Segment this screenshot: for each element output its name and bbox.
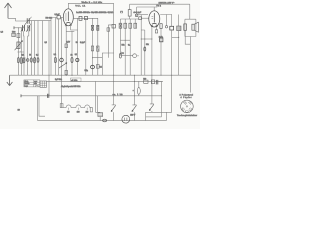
resistor oval x=72 <box>71 57 73 62</box>
svg-text:0,5: 0,5 <box>45 42 47 44</box>
capacitor anode <box>79 16 82 20</box>
wire x=61.5 regen <box>61 18 63 76</box>
svg-text:4 Papier: 4 Papier <box>181 96 192 99</box>
speaker down wire <box>189 37 191 93</box>
main long vertical x=113.7 <box>113 3 115 105</box>
capacitor box on line <box>151 80 154 84</box>
variable capacitor Ca <box>23 25 25 31</box>
wire x=49 long <box>48 21 50 96</box>
wire x=108.3 <box>108 25 112 58</box>
switch box above bus <box>98 113 103 117</box>
svg-text:100: 100 <box>143 78 146 80</box>
svg-text:±5 kHz: ±5 kHz <box>71 80 77 82</box>
antenna <box>5 3 12 18</box>
svg-text:0,1: 0,1 <box>100 66 102 68</box>
capacitor grid coupling <box>57 16 60 19</box>
label box on line <box>71 78 82 81</box>
wire x=34.6 <box>34 21 36 76</box>
svg-text:0,1µF: 0,1µF <box>80 42 86 44</box>
wire x=130.2 <box>129 19 131 75</box>
tube V1 top cap wire <box>68 3 113 8</box>
speaker feed <box>189 4 191 19</box>
bottom bus <box>38 120 167 122</box>
svg-text:0,1: 0,1 <box>22 54 25 56</box>
svg-text:HG 604: HG 604 <box>46 18 53 20</box>
small box on x=66.2 <box>65 70 67 74</box>
tube V1 pin 2 down <box>71 26 78 30</box>
wire x=85.8 <box>85 18 87 75</box>
horizontal y=57.7 <box>93 53 114 58</box>
lamp / plug circle <box>122 115 130 123</box>
svg-text:0,5: 0,5 <box>36 54 39 56</box>
wire main input line <box>30 18 57 21</box>
wire cap1 down <box>23 31 26 75</box>
wire antenna to cap <box>8 18 30 21</box>
top rail <box>130 3 190 5</box>
svg-text:0,5µ: 0,5µ <box>85 70 88 72</box>
wire x=92.5 <box>92 18 94 75</box>
resistor box on line <box>144 80 148 83</box>
svg-text:(~): (~) <box>120 12 123 14</box>
wire to varcaps <box>14 27 22 29</box>
heater resistor tapped <box>61 75 63 107</box>
svg-text:VCL 11: VCL 11 <box>75 6 86 8</box>
wire x=58.7 grid leak <box>58 19 60 75</box>
svg-text:50: 50 <box>29 54 31 56</box>
svg-text:6,3: 6,3 <box>1 31 4 33</box>
svg-text:Lsp: Lsp <box>121 52 124 54</box>
dropper resistor <box>138 81 140 95</box>
wire x=97.8 <box>97 18 99 75</box>
small circle component <box>166 15 168 26</box>
variable capacitor Cb <box>28 25 30 31</box>
svg-text:220 V: 220 V <box>130 114 136 116</box>
wire to cap x=171.7 <box>160 15 172 27</box>
switch S1 <box>112 104 116 106</box>
wire y=19 line <box>120 18 138 20</box>
wire main secondary line <box>47 80 164 82</box>
capacitor right of V2 <box>160 24 162 29</box>
resistor in frame <box>184 24 187 30</box>
tube V1 pin circles <box>65 24 67 26</box>
wire x=37.6 down <box>37 96 39 121</box>
tube V2 VY2 <box>149 11 160 27</box>
choke coil box hatched <box>178 15 180 27</box>
wire x=42.6 <box>42 21 44 76</box>
wire x=120.4 <box>119 19 121 55</box>
wires left of V2 <box>140 15 142 76</box>
svg-text:0,2: 0,2 <box>75 54 78 56</box>
svg-text:110: 110 <box>67 112 70 114</box>
svg-text:2 Polystyrol: 2 Polystyrol <box>180 93 194 96</box>
capacitor dark x=61.5 <box>60 58 64 62</box>
wire x=135.2 <box>134 19 136 28</box>
switch S2 <box>133 75 137 105</box>
ground bus <box>10 74 191 76</box>
fuse bead on bus <box>103 119 107 122</box>
series capacitor on line <box>47 94 48 98</box>
svg-text:0,1µF: 0,1µF <box>55 14 61 16</box>
capacitor dark x=77.3 <box>76 18 78 75</box>
svg-text:Skala: Skala <box>24 81 28 83</box>
svg-text:ca. 1 kΩ: ca. 1 kΩ <box>113 93 124 96</box>
capacitor grid2 <box>139 17 142 20</box>
electrolytic bars <box>156 80 158 85</box>
bridge connector <box>17 51 24 52</box>
svg-text:50k: 50k <box>122 45 125 47</box>
svg-text:min: min <box>34 83 37 85</box>
svg-text:Abgleichpunkt 515 kHz: Abgleichpunkt 515 kHz <box>61 85 81 88</box>
coil box hatched left <box>12 33 16 36</box>
taps <box>69 108 88 110</box>
svg-text:2k: 2k <box>71 54 73 56</box>
tube V1 cathode pin down <box>65 26 67 75</box>
earth arrow <box>7 75 13 85</box>
tube socket diagram <box>181 100 194 113</box>
speaker frame <box>185 19 196 36</box>
wire cap2 down <box>28 31 29 75</box>
electrolytic cap <box>170 26 174 30</box>
hatched box bottom left <box>40 81 47 87</box>
wire x=55.4 <box>54 18 56 76</box>
svg-text:Lage: Lage <box>24 86 28 88</box>
table calibration <box>24 80 40 87</box>
svg-text:50k: 50k <box>146 44 149 46</box>
connector y=40 <box>120 39 130 41</box>
wire x=21.3 <box>20 28 22 75</box>
wire x=31.3 <box>30 21 32 76</box>
svg-text:Trockengleichrichter: Trockengleichrichter <box>177 114 197 117</box>
jog <box>172 36 179 38</box>
jog resistor bottom <box>185 30 190 44</box>
terminal <box>13 26 15 29</box>
svg-text:Lw 150–350 kHz · Mw 515–1620 k: Lw 150–350 kHz · Mw 515–1620 kHz · 5,2 k… <box>76 11 113 14</box>
svg-text:0,1: 0,1 <box>128 45 131 47</box>
svg-text:0,1: 0,1 <box>54 54 57 56</box>
tube V1 anode wire <box>73 17 98 19</box>
svg-text:220/110–240 V~: 220/110–240 V~ <box>159 3 176 5</box>
small box on x=66.2 upper <box>65 44 67 48</box>
verticals x=95.5 x=97.3 <box>96 81 101 112</box>
long line y=95.8 <box>21 95 162 97</box>
wire x=51 <box>50 21 52 76</box>
svg-text:10: 10 <box>18 109 21 111</box>
switch S3 <box>150 96 154 104</box>
right bottom loop <box>146 111 172 113</box>
svg-text:4×0,1µF: 4×0,1µF <box>133 11 141 14</box>
wire x=72 from bar <box>71 31 73 75</box>
horizontal y=55.3 <box>120 54 132 56</box>
tube V2 top wire <box>137 7 158 11</box>
resistor top x=129.6 <box>129 4 131 9</box>
connector y=39 <box>141 38 152 40</box>
potentiometer volume <box>17 42 20 49</box>
tube V1 VCL11 <box>63 9 73 26</box>
svg-text:130: 130 <box>77 112 80 114</box>
wire x=38 <box>37 21 39 76</box>
potentiometer arrow regen <box>59 63 67 68</box>
svg-text:max: max <box>34 81 37 83</box>
loudspeaker <box>192 24 194 30</box>
tube V2 pins <box>151 27 153 96</box>
svg-text:VY 2: VY 2 <box>156 6 161 8</box>
svg-text:2,5V: 2,5V <box>67 41 71 43</box>
capacitor box x=18.4 <box>17 28 19 75</box>
svg-text:Welle B – 5,2 kHz: Welle B – 5,2 kHz <box>82 2 103 4</box>
svg-text:220: 220 <box>86 112 89 114</box>
connector bar under tube <box>66 30 74 32</box>
lamp circle small <box>136 7 138 14</box>
wire x=125.2 <box>124 19 126 75</box>
wire x=102.3 <box>101 58 103 75</box>
capacitor C1 variable antenna <box>27 18 29 24</box>
